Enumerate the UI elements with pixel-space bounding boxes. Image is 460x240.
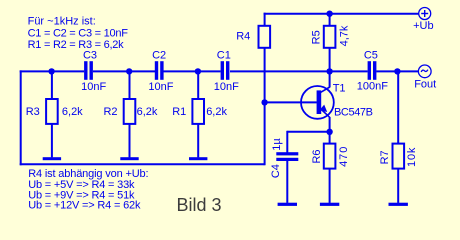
transistor T1 circle <box>301 86 334 119</box>
node E (R5 top rail) <box>326 11 332 17</box>
wire: emitter vertical <box>329 117 331 132</box>
svg-text:C1: C1 <box>217 49 231 61</box>
wire: R7 bottom to ground <box>397 169 399 203</box>
svg-text:C1 = C2 = C3 = 10nF: C1 = C2 = C3 = 10nF <box>28 28 129 40</box>
transistor emitter arrow <box>319 105 327 112</box>
transistor emitter diagonal <box>321 109 330 117</box>
svg-text:Für ~1kHz ist:: Für ~1kHz ist: <box>28 16 96 28</box>
resistor R2 <box>124 99 136 124</box>
capacitor C2 <box>155 61 158 80</box>
terminal +Ub circle <box>419 8 431 20</box>
wire: C1 to collector node (crosses R4 line, no junction) <box>230 70 368 72</box>
wire: C4 top vertical <box>286 131 288 153</box>
wire: R1 bottom to ground <box>197 124 199 157</box>
svg-text:R5: R5 <box>310 30 322 44</box>
svg-text:Ub = +12V => R4 = 62k: Ub = +12V => R4 = 62k <box>28 200 141 212</box>
svg-text:C5: C5 <box>364 49 378 61</box>
wire: C5 to Fout terminal <box>376 70 418 72</box>
ground (R2) <box>120 157 138 160</box>
capacitor C5 <box>368 61 371 80</box>
+Ub plus sign <box>421 13 428 15</box>
svg-text:R1: R1 <box>172 106 186 118</box>
wire: +Ub top rail <box>264 13 419 15</box>
wire: base from node to transistor <box>265 101 317 103</box>
wire: rail corner down to R4 <box>264 13 266 26</box>
wire: R7 top vertical from Fout node <box>397 71 399 143</box>
resistor R7 <box>393 144 405 169</box>
svg-text:6,2k: 6,2k <box>137 106 158 118</box>
node A (R3 top) <box>48 68 54 74</box>
wire: emitter node left to C4 corner <box>287 131 329 133</box>
svg-text:R1 = R2 = R3 = 6,2k: R1 = R2 = R3 = 6,2k <box>28 39 125 51</box>
wire: C3 to C2 <box>93 70 155 72</box>
svg-text:C4: C4 <box>270 164 282 178</box>
wire: R6 bottom to ground <box>329 169 331 203</box>
terminal Fout circle <box>418 65 431 78</box>
capacitor C3 <box>84 61 87 80</box>
svg-text:1µ: 1µ <box>271 138 283 151</box>
svg-text:R6: R6 <box>311 149 323 163</box>
svg-text:4,7k: 4,7k <box>339 25 351 46</box>
svg-text:10nF: 10nF <box>81 81 106 93</box>
wire: R3 top stub <box>51 71 53 99</box>
svg-text:C2: C2 <box>152 49 166 61</box>
wire: R4 bottom down to feedback (crosses ladder rail, no junction) <box>264 48 266 165</box>
wire: R2 bottom to ground <box>129 124 131 157</box>
svg-text:Bild 3: Bild 3 <box>177 195 222 215</box>
svg-text:6,2k: 6,2k <box>206 106 227 118</box>
Fout tilde <box>421 70 428 72</box>
svg-text:R3: R3 <box>26 106 40 118</box>
transistor base bar <box>317 90 322 114</box>
node F (collector) <box>326 68 332 74</box>
svg-text:R2: R2 <box>103 106 117 118</box>
wire: C4 bottom to ground <box>286 161 288 203</box>
wire: R5 bottom to collector node <box>329 48 331 72</box>
ground (C4) <box>278 203 297 206</box>
node D (base node) <box>261 99 267 105</box>
wire: collector vertical <box>329 71 331 87</box>
wire: R3 bottom to ground <box>51 124 53 157</box>
wire: C2 to C1 <box>163 70 220 72</box>
node C (R1 top) <box>195 68 201 74</box>
wire: R5 top stub <box>329 14 331 26</box>
node B (R2 top) <box>126 68 132 74</box>
svg-text:470: 470 <box>338 146 350 167</box>
ground (R7) <box>389 203 408 206</box>
node H (Fout/R7) <box>394 68 400 74</box>
svg-text:R7: R7 <box>379 150 391 164</box>
resistor R6 <box>324 144 336 169</box>
resistor R3 <box>46 99 58 124</box>
wire: R2 top stub <box>129 71 131 99</box>
svg-text:Fout: Fout <box>414 79 436 91</box>
svg-text:C3: C3 <box>83 50 97 62</box>
svg-text:10nF: 10nF <box>214 81 239 93</box>
wire: bottom feedback horizontal <box>20 163 265 165</box>
node G (emitter) <box>326 129 332 135</box>
capacitor C4 (vertical) <box>276 152 298 155</box>
wire: ladder top rail left corner to C3 <box>20 70 84 72</box>
resistor R4 <box>259 26 271 48</box>
svg-text:R4: R4 <box>236 31 250 43</box>
capacitor C1 <box>221 61 224 80</box>
ground (R1) <box>189 157 207 160</box>
wire: R1 top stub <box>197 71 199 99</box>
svg-text:6,2k: 6,2k <box>62 106 83 118</box>
svg-text:10k: 10k <box>406 147 418 167</box>
ground (R3) <box>43 157 61 160</box>
svg-text:BC547B: BC547B <box>334 107 373 119</box>
wire: R6 top stub <box>329 132 331 144</box>
svg-text:T1: T1 <box>333 83 346 95</box>
ground (R6) <box>320 203 339 206</box>
wire: left feedback vertical <box>20 70 22 165</box>
resistor R1 <box>192 99 204 124</box>
svg-text:10nF: 10nF <box>148 81 173 93</box>
resistor R5 <box>324 26 336 48</box>
svg-text:+Ub: +Ub <box>413 20 434 32</box>
svg-text:100nF: 100nF <box>357 81 388 93</box>
transistor collector diagonal <box>321 87 330 92</box>
